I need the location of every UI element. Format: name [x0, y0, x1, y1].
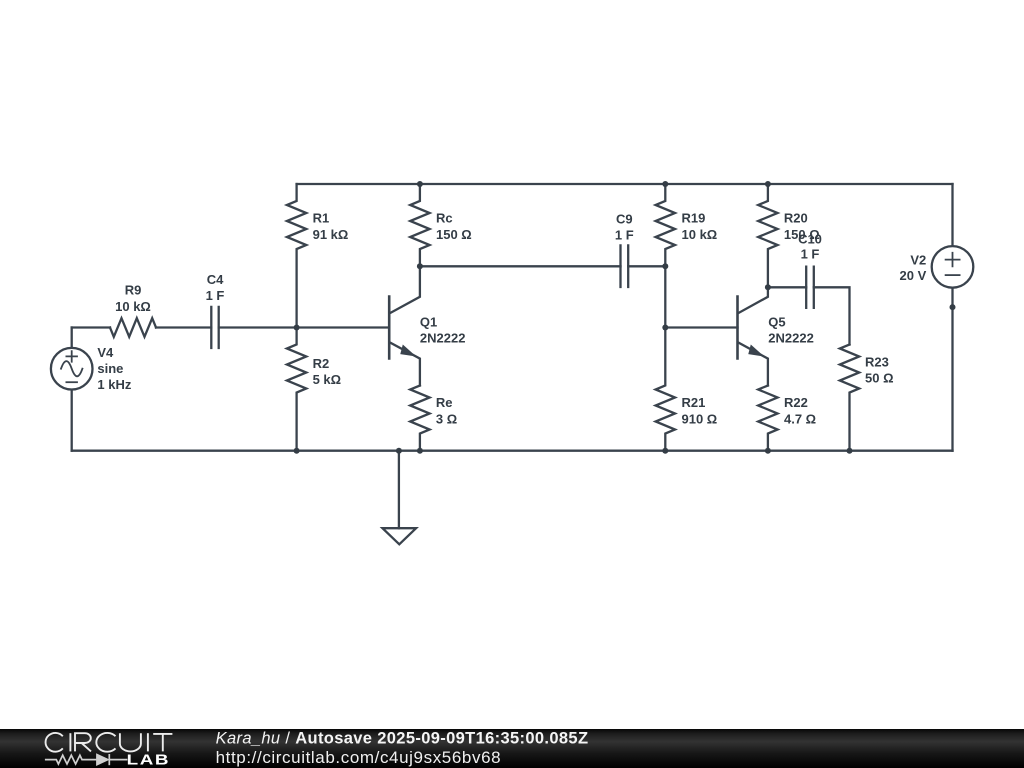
svg-text:LAB: LAB — [127, 751, 171, 768]
resistor Rc — [410, 184, 429, 266]
ground — [383, 451, 417, 545]
svg-text:http://circuitlab.com/c4uj9sx5: http://circuitlab.com/c4uj9sx56bv68 — [216, 748, 502, 767]
wire bottom rail — [72, 450, 953, 452]
node below V2 — [950, 304, 956, 310]
resistor R23 — [840, 345, 859, 451]
wire C4 to node A — [219, 326, 390, 328]
svg-text:R9: R9 — [125, 283, 142, 298]
svg-text:1 kHz: 1 kHz — [97, 377, 131, 392]
svg-text:1 F: 1 F — [801, 247, 820, 262]
logo CIRCUIT (hand-drawn thin letters) — [46, 733, 173, 752]
voltage source V2 — [932, 246, 974, 288]
capacitor C9 — [621, 245, 629, 287]
node Q5 collector / C10 — [765, 284, 771, 290]
svg-text:sine: sine — [97, 361, 123, 376]
svg-text:910 Ω: 910 Ω — [682, 411, 718, 426]
resistor R21 — [656, 328, 675, 451]
node Rc bottom / C9 — [417, 263, 423, 269]
svg-text:R2: R2 — [313, 356, 330, 371]
wire left rail top (V4 to main line) — [71, 328, 73, 349]
svg-text:V2: V2 — [910, 253, 926, 268]
svg-text:C4: C4 — [207, 272, 224, 287]
resistor Re — [410, 386, 429, 451]
svg-text:2N2222: 2N2222 — [768, 331, 814, 346]
wire right rail bottom (V2 to bottom rail) — [951, 288, 953, 451]
svg-text:R1: R1 — [313, 211, 330, 226]
wire C10 to R23 corner — [814, 287, 850, 344]
resistor R22 — [758, 386, 777, 451]
svg-text:R23: R23 — [865, 355, 889, 370]
labels — [97, 211, 926, 427]
wire main input line V4 corner to R9 — [72, 326, 110, 328]
svg-text:R19: R19 — [682, 211, 706, 226]
svg-text:V4: V4 — [97, 345, 114, 360]
node R20 top — [765, 181, 771, 187]
svg-text:C9: C9 — [616, 212, 633, 227]
wire top rail — [297, 183, 953, 185]
svg-text:3 Ω: 3 Ω — [436, 411, 457, 426]
node R21 bottom — [662, 448, 668, 454]
node Re bottom — [417, 448, 423, 454]
logo resistor-diode glyph — [45, 754, 128, 765]
transistor Q1 — [389, 266, 420, 385]
svg-text:R21: R21 — [682, 395, 706, 410]
transistor Q5 — [738, 287, 768, 385]
svg-text:Kara_hu / Autosave 2025-09-09T: Kara_hu / Autosave 2025-09-09T16:35:00.0… — [216, 730, 589, 748]
svg-text:50 Ω: 50 Ω — [865, 371, 894, 386]
capacitor C4 — [211, 307, 218, 348]
node Rc top — [417, 181, 423, 187]
wire Rc output to C9 — [420, 265, 621, 267]
svg-text:1 F: 1 F — [615, 227, 634, 242]
svg-text:150 Ω: 150 Ω — [436, 227, 472, 242]
resistor R1 — [287, 184, 306, 328]
resistor R20 — [758, 184, 777, 287]
svg-text:Re: Re — [436, 395, 453, 410]
node ground — [396, 448, 402, 454]
svg-text:1 F: 1 F — [206, 288, 225, 303]
node R19 top — [662, 181, 668, 187]
svg-text:91 kΩ: 91 kΩ — [313, 227, 349, 242]
svg-text:Q1: Q1 — [420, 315, 437, 330]
svg-text:C10: C10 — [798, 231, 822, 246]
logo LAB — [127, 751, 171, 768]
svg-text:R22: R22 — [784, 395, 808, 410]
wire Q5 collector node to C10 — [768, 286, 806, 288]
svg-text:Rc: Rc — [436, 211, 453, 226]
node R22 bottom — [765, 448, 771, 454]
svg-text:Q5: Q5 — [768, 315, 785, 330]
svg-text:10 kΩ: 10 kΩ — [115, 299, 151, 314]
capacitor C10 — [806, 267, 814, 308]
svg-text:2N2222: 2N2222 — [420, 331, 466, 346]
resistor R19 — [656, 184, 675, 266]
node R23 bottom — [847, 448, 853, 454]
node R19 / R21 base — [662, 325, 668, 331]
wire left rail bottom (V4 to bottom rail) — [71, 389, 73, 450]
node C9 / R19 — [662, 263, 668, 269]
voltage source V4 — [51, 348, 93, 390]
resistor R2 — [287, 328, 306, 451]
wire right rail top (to V2) — [951, 184, 953, 246]
svg-text:R20: R20 — [784, 211, 808, 226]
wire R9 to C4 — [156, 326, 211, 328]
wire base node to Q5 — [665, 326, 737, 328]
node R2 bottom — [294, 448, 300, 454]
svg-text:5 kΩ: 5 kΩ — [313, 372, 342, 387]
wire C9 to R19 column — [628, 265, 665, 267]
svg-text:20 V: 20 V — [900, 268, 927, 283]
junction dots — [294, 181, 956, 454]
svg-text:10 kΩ: 10 kΩ — [682, 227, 718, 242]
svg-text:4.7 Ω: 4.7 Ω — [784, 411, 816, 426]
node C4 / R1 / R2 — [294, 325, 300, 331]
resistor R9 — [110, 318, 156, 337]
wire R19 to base node — [664, 266, 666, 327]
